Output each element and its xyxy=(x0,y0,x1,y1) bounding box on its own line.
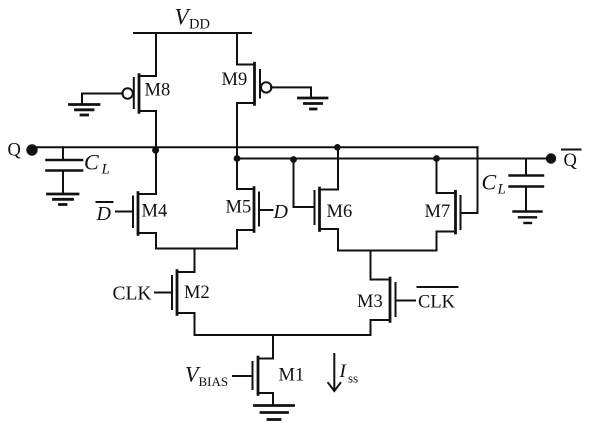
wire CLKbar overline xyxy=(418,286,458,288)
transistor M8 xyxy=(122,75,156,113)
wire node Qbar rail xyxy=(237,158,551,160)
wire M6/M7 source bus xyxy=(338,229,437,251)
transistor M1 xyxy=(233,357,273,394)
capacitor CL (right) xyxy=(510,159,544,211)
node junction M6 drain on Q rail xyxy=(334,144,341,151)
wire VDD to M9 drain xyxy=(237,33,255,65)
label Dbar (M4 gate) xyxy=(96,203,112,225)
svg-text:Q: Q xyxy=(8,141,22,161)
ground (M8 gate) xyxy=(70,105,100,116)
wire tail bus to M3 drain xyxy=(370,251,372,280)
svg-text:C: C xyxy=(84,150,99,175)
svg-text:M1: M1 xyxy=(279,366,305,386)
svg-text:M8: M8 xyxy=(145,81,171,101)
label CL (left) xyxy=(84,150,110,178)
svg-text:BIAS: BIAS xyxy=(199,374,229,389)
label VDD xyxy=(175,5,210,33)
node junction M6 gate on Qbar rail xyxy=(290,156,297,163)
ground (M9 gate) xyxy=(299,98,328,109)
wire M8 source to M4 drain xyxy=(155,111,157,194)
svg-text:ss: ss xyxy=(348,371,358,386)
transistor M7 xyxy=(437,191,478,233)
wire VDD rail xyxy=(134,32,251,34)
node junction M9/M5 on Qbar rail xyxy=(234,155,241,162)
wire M8 gate to ground xyxy=(82,94,123,104)
wire M6 gate drop from Qbar rail xyxy=(293,159,295,208)
wire M7 drain drop from Qbar rail xyxy=(436,159,438,194)
svg-text:M6: M6 xyxy=(327,202,353,222)
wire tail bus to M1 drain xyxy=(272,335,274,359)
svg-text:M3: M3 xyxy=(357,292,383,312)
node Qbar terminal xyxy=(546,153,556,163)
svg-text:M7: M7 xyxy=(425,202,451,222)
wire VDD to M8 drain xyxy=(139,33,156,76)
transistor M4 xyxy=(116,193,156,235)
svg-text:M9: M9 xyxy=(222,70,248,90)
svg-text:L: L xyxy=(497,182,506,198)
svg-text:D: D xyxy=(96,203,112,225)
capacitor CL (left) xyxy=(47,147,83,193)
wire M9 gate to ground xyxy=(271,87,311,96)
wire tail bus to M2 drain xyxy=(194,249,196,273)
ground (CL left) xyxy=(48,194,79,205)
svg-text:C: C xyxy=(482,170,497,195)
svg-text:D: D xyxy=(273,201,289,223)
transistor M2 xyxy=(155,271,195,315)
ground (M1 source) xyxy=(255,406,294,420)
svg-text:CLK: CLK xyxy=(418,293,456,313)
transistor M5 xyxy=(237,188,273,232)
wire Dbar overline xyxy=(97,201,113,203)
current arrow Iss xyxy=(328,354,340,391)
svg-text:Q: Q xyxy=(564,151,578,171)
label VBIAS xyxy=(185,362,228,390)
wire M4/M5 source bus xyxy=(156,230,237,249)
node Q terminal xyxy=(26,144,37,155)
ground (CL right) xyxy=(514,212,542,224)
label CL (right) xyxy=(482,170,506,198)
svg-text:CLK: CLK xyxy=(113,284,152,305)
wire M9 source / M5 drain vertical xyxy=(236,103,238,189)
wire Qbar overline xyxy=(562,149,581,151)
svg-text:L: L xyxy=(101,162,110,178)
node junction M7 drain on Qbar rail xyxy=(433,155,440,162)
svg-text:M4: M4 xyxy=(142,202,168,222)
wire M2/M3 source bus xyxy=(195,313,371,335)
transistor M9 xyxy=(237,63,271,104)
svg-text:DD: DD xyxy=(189,17,210,33)
svg-text:M5: M5 xyxy=(226,198,252,218)
transistor M3 xyxy=(371,278,416,321)
wire M6 drain riser to Q rail xyxy=(337,147,339,189)
node junction M8/M4 on Q rail xyxy=(152,147,159,154)
transistor M6 xyxy=(294,188,339,230)
wire node Q rail xyxy=(36,146,478,148)
wire M7 gate riser to Q rail xyxy=(477,147,479,213)
label Iss xyxy=(339,361,359,386)
svg-text:M2: M2 xyxy=(184,283,210,303)
wire M1 source to ground xyxy=(272,393,274,405)
